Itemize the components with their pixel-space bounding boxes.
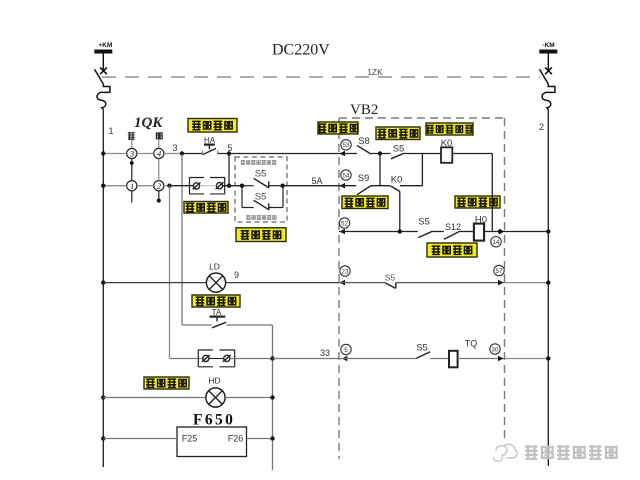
- svg-text:3: 3: [172, 143, 177, 153]
- svg-text:TQ: TQ: [465, 339, 478, 349]
- svg-text:14: 14: [492, 239, 500, 246]
- svg-text:2: 2: [157, 181, 162, 191]
- svg-text:23: 23: [341, 268, 349, 275]
- svg-text:S9: S9: [358, 173, 370, 184]
- svg-text:S5: S5: [416, 343, 428, 354]
- svg-text:54: 54: [342, 172, 350, 179]
- svg-text:F650: F650: [193, 412, 235, 429]
- svg-text:57: 57: [495, 268, 503, 275]
- svg-text:F26: F26: [228, 434, 244, 444]
- svg-text:S5: S5: [255, 192, 267, 203]
- svg-text:1QK: 1QK: [134, 115, 163, 131]
- svg-text:1: 1: [130, 181, 134, 191]
- svg-text:DC220V: DC220V: [272, 42, 330, 59]
- svg-text:9: 9: [234, 270, 239, 280]
- svg-text:S5: S5: [393, 144, 405, 155]
- svg-text:S5: S5: [385, 273, 396, 283]
- svg-text:53: 53: [342, 142, 350, 149]
- svg-text:33: 33: [320, 348, 330, 358]
- svg-text:+KM: +KM: [98, 42, 112, 49]
- svg-text:5: 5: [344, 347, 348, 354]
- svg-text:4: 4: [157, 149, 162, 159]
- svg-text:LD: LD: [209, 262, 220, 272]
- svg-text:3: 3: [129, 149, 134, 159]
- svg-text:S8: S8: [358, 136, 370, 147]
- svg-text:S5: S5: [418, 217, 430, 228]
- svg-text:30: 30: [491, 346, 499, 353]
- svg-text:S12: S12: [445, 222, 461, 232]
- svg-text:1: 1: [108, 126, 113, 136]
- svg-text:2: 2: [539, 122, 544, 132]
- svg-text:1ZK: 1ZK: [367, 67, 383, 77]
- svg-text:52: 52: [341, 220, 349, 227]
- svg-text:S5: S5: [255, 169, 267, 180]
- svg-text:5A: 5A: [311, 176, 322, 186]
- svg-text:VB2: VB2: [350, 102, 378, 118]
- svg-text:F25: F25: [182, 434, 198, 444]
- svg-text:-KM: -KM: [542, 42, 554, 49]
- svg-text:HD: HD: [208, 376, 220, 386]
- svg-text:K0: K0: [391, 175, 403, 186]
